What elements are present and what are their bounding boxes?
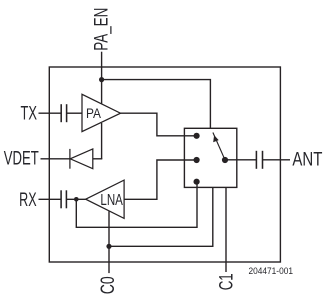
wire cap to PA xyxy=(67,112,82,114)
wire switch pole to ANT cap xyxy=(225,159,256,161)
wire PA output to switch throw 1 xyxy=(121,113,195,136)
wire PA detector pin down xyxy=(101,123,103,159)
wire PA_EN to switch xyxy=(102,80,211,129)
node RX junction dot xyxy=(74,197,79,202)
op-amp LNA triangle xyxy=(86,180,124,218)
outer module box xyxy=(49,67,280,262)
wire LNA bias pin down xyxy=(108,211,110,273)
capacitor ANT coupling xyxy=(256,151,262,169)
wire RX bypass to switch throw 3 xyxy=(76,183,197,227)
svg-text:LNA: LNA xyxy=(100,192,123,209)
node C0 junction dot xyxy=(106,244,111,249)
op-amp PA triangle xyxy=(82,94,121,131)
switch box U1 xyxy=(184,128,236,187)
capacitor TX coupling xyxy=(61,104,66,122)
switch arm arrow xyxy=(213,133,224,159)
wire RX input xyxy=(39,198,62,200)
wire cap to LNA xyxy=(66,198,85,200)
svg-text:TX: TX xyxy=(21,104,38,125)
wire ANT output xyxy=(263,159,291,161)
node PA_EN junction dot xyxy=(99,77,104,82)
svg-text:PA_EN: PA_EN xyxy=(91,8,112,51)
svg-text:PA: PA xyxy=(86,105,102,121)
svg-text:204471-001: 204471-001 xyxy=(249,265,294,276)
svg-text:VDET: VDET xyxy=(4,149,39,170)
svg-text:C1: C1 xyxy=(216,273,237,290)
wire TX input xyxy=(39,112,62,114)
wire PA_EN vertical xyxy=(101,52,103,104)
node switch throw 3 xyxy=(194,179,200,185)
wire VDET xyxy=(41,158,70,160)
svg-text:ANT: ANT xyxy=(292,150,322,171)
capacitor RX coupling xyxy=(61,190,66,208)
wire diode to PA pin xyxy=(93,158,103,160)
wire C1 xyxy=(225,187,227,272)
wire C0 node to switch bottom xyxy=(109,187,213,246)
diode detector xyxy=(70,149,93,169)
wire switch throw 2 to LNA input xyxy=(124,160,194,199)
node switch throw 2 xyxy=(194,157,200,163)
svg-text:C0: C0 xyxy=(98,276,119,294)
node switch throw 1 xyxy=(194,133,200,139)
svg-text:RX: RX xyxy=(19,190,37,211)
node switch pole xyxy=(222,157,228,163)
